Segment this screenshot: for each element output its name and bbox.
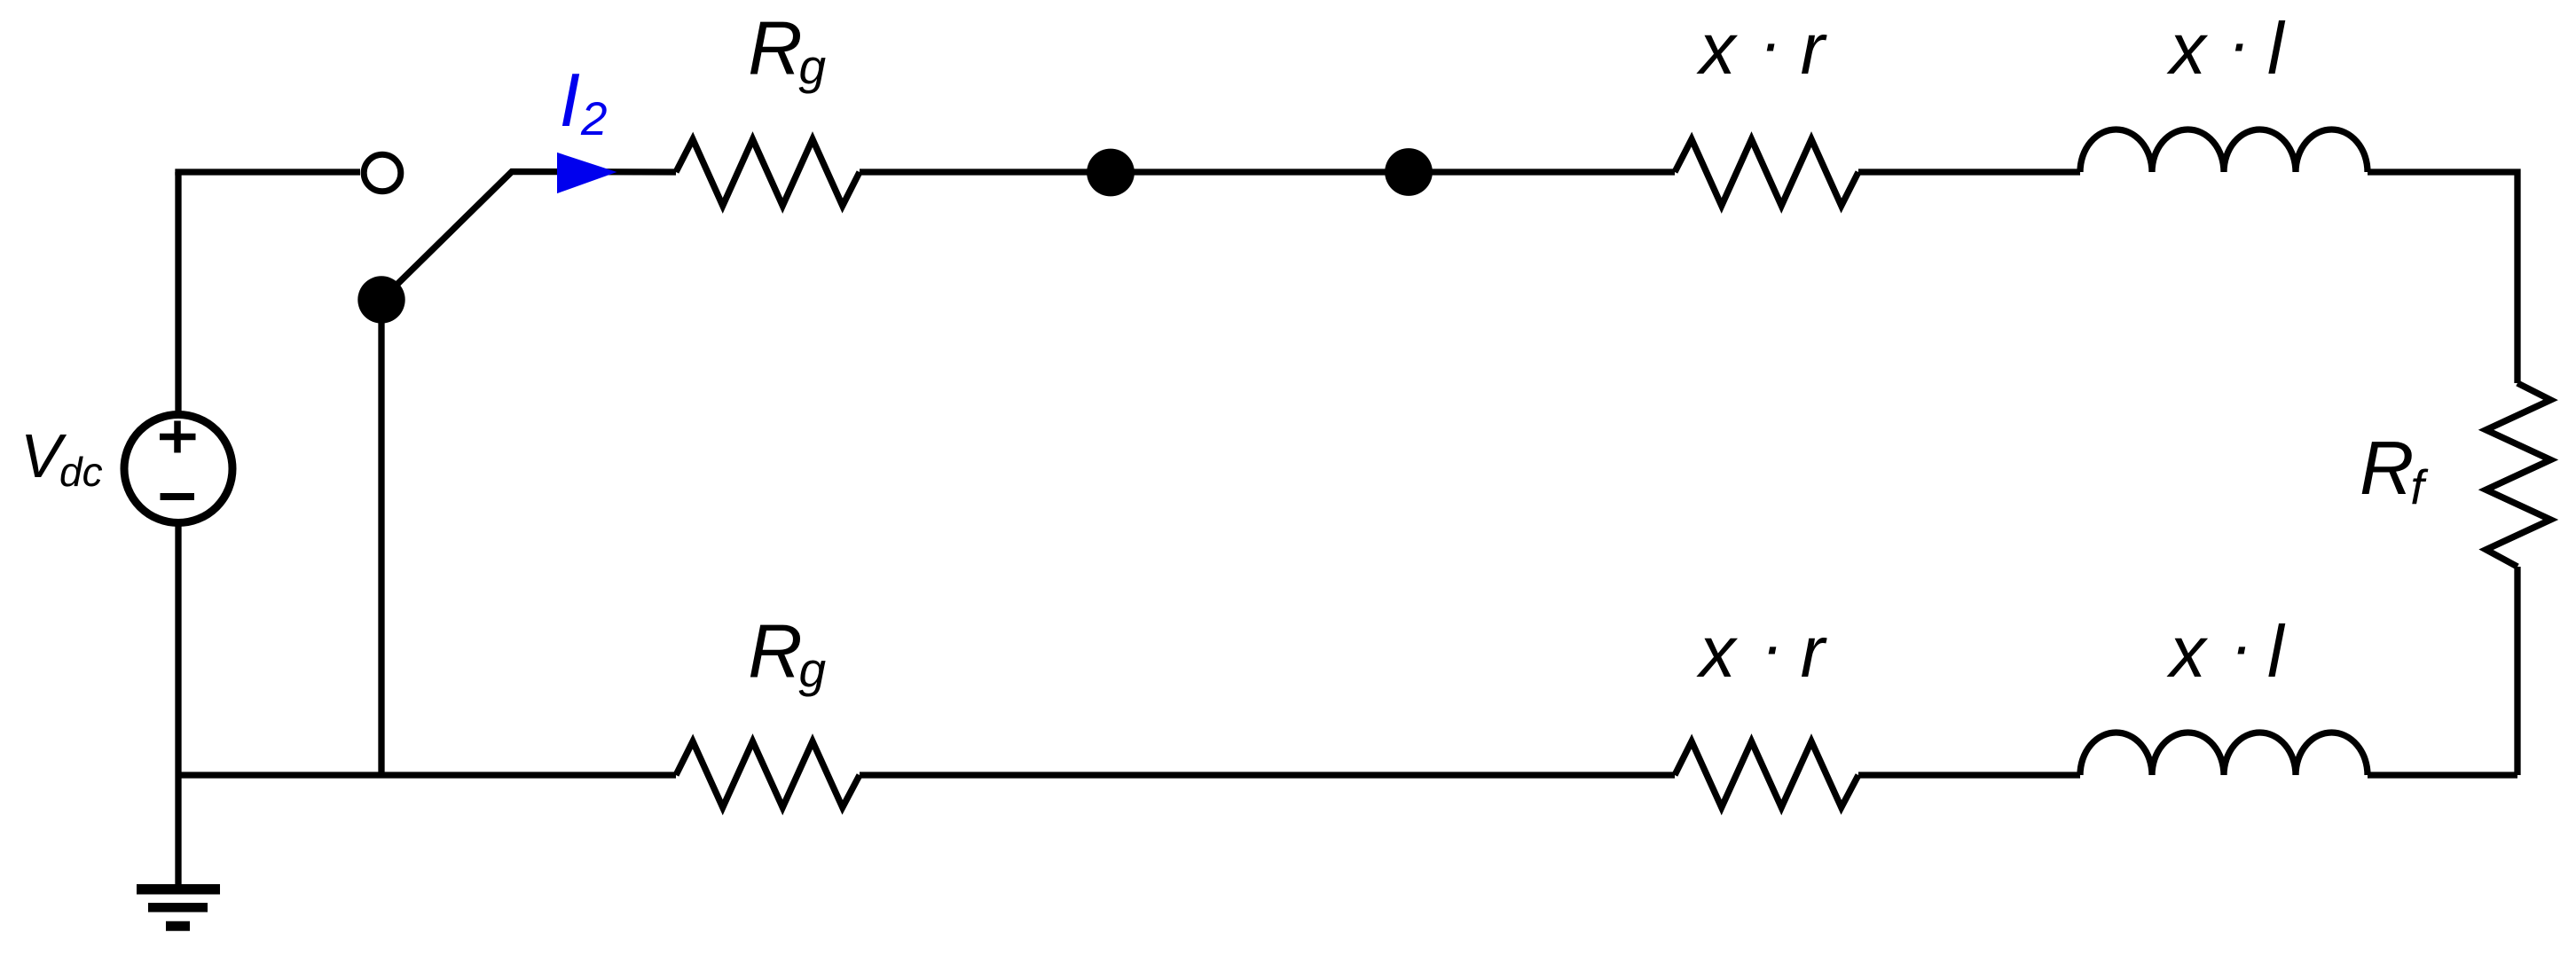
svg-text:x: x xyxy=(1696,612,1739,693)
ground symbol bar 3 xyxy=(166,921,190,931)
inductor x*l top xyxy=(2080,129,2368,172)
wire bottom-right corner xyxy=(2368,772,2517,778)
svg-text:l: l xyxy=(2267,610,2286,693)
node junction dot 1 on top wire xyxy=(1087,149,1135,197)
svg-text:·: · xyxy=(2230,608,2252,683)
wire left rail lower (Vdc bottom to ground) xyxy=(175,526,181,885)
svg-text:x: x xyxy=(2166,612,2209,693)
switch blade wire (pole dot to top level) xyxy=(381,172,676,301)
wire top middle (Rg to x*r) xyxy=(860,168,1675,175)
resistor Rf (vertical, right side) xyxy=(2486,383,2551,567)
svg-text:x: x xyxy=(1696,9,1739,90)
wire top-right horizontal and corner down xyxy=(2368,172,2517,383)
resistor x*r top xyxy=(1675,139,1858,206)
ground symbol bar 2 xyxy=(148,903,208,913)
Vdc plus sign xyxy=(160,421,196,453)
svg-text:·: · xyxy=(1762,608,1784,683)
node junction dot 2 on top wire xyxy=(1385,148,1433,196)
wire bottom-left xyxy=(178,772,676,778)
wire between x*l and x*r bottom xyxy=(1858,772,2080,778)
svg-text:g: g xyxy=(799,642,827,697)
wire left rail upper (corner to Vdc top) xyxy=(175,172,181,411)
Vdc minus sign xyxy=(161,493,195,500)
wire between x*r and x*l top xyxy=(1858,168,2080,175)
svg-text:I: I xyxy=(560,59,581,143)
svg-text:r: r xyxy=(1801,612,1828,693)
resistor Rg top xyxy=(676,139,860,206)
svg-text:f: f xyxy=(2410,459,2429,514)
svg-text:2: 2 xyxy=(580,93,607,145)
svg-text:·: · xyxy=(1760,5,1782,80)
svg-text:R: R xyxy=(748,7,802,91)
wire right rail lower xyxy=(2514,567,2520,775)
svg-text:x: x xyxy=(2166,9,2209,90)
switch pole node (filled dot) xyxy=(357,276,404,323)
switch throw terminal (open circle) xyxy=(364,154,401,192)
resistor Rg bottom xyxy=(676,741,860,808)
current arrow I2 (blue) xyxy=(557,153,617,193)
wire top-left horizontal from left rail corner to switch throw circle xyxy=(178,172,360,176)
switch pole vertical wire down to bottom rail xyxy=(378,300,384,775)
svg-text:dc: dc xyxy=(59,449,103,495)
svg-text:R: R xyxy=(748,610,802,694)
svg-text:·: · xyxy=(2228,5,2250,80)
svg-text:R: R xyxy=(2360,427,2414,511)
wire bottom middle xyxy=(860,772,1675,778)
voltage source V_dc circle xyxy=(124,415,232,523)
svg-text:g: g xyxy=(799,39,827,94)
svg-text:l: l xyxy=(2267,7,2286,90)
ground symbol bar 1 xyxy=(137,884,220,895)
inductor x*l bottom xyxy=(2080,733,2368,775)
resistor x*r bottom xyxy=(1675,741,1858,808)
svg-text:r: r xyxy=(1801,9,1828,90)
